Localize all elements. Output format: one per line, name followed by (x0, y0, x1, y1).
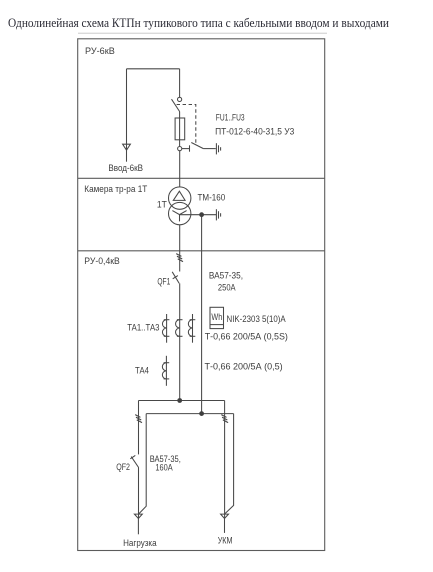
svg-text:ВА57-35,: ВА57-35, (209, 270, 243, 281)
wire: fuse to transformer (179, 151, 181, 188)
junction dot: phase bus (177, 398, 182, 403)
svg-text:NIK-2303 5(10)А: NIK-2303 5(10)А (227, 314, 287, 325)
wire: transformer to LV section (179, 225, 181, 272)
svg-text:ТА1..ТА3: ТА1..ТА3 (127, 323, 159, 334)
svg-text:Ввод-6кВ: Ввод-6кВ (108, 163, 143, 174)
svg-text:Камера тр-ра 1Т: Камера тр-ра 1Т (84, 184, 147, 195)
left neutral drop (139, 414, 146, 514)
neutral conductor drop (201, 215, 203, 414)
lower hinge circle (178, 147, 182, 151)
breaker QF1 cross tick (173, 276, 178, 279)
svg-text:FU1..FU3: FU1..FU3 (216, 112, 245, 123)
disconnector blade (172, 99, 180, 111)
cable mark on main LV line (176, 254, 183, 262)
mechanical link (dashed) (177, 105, 196, 144)
svg-text:Т-0,66 200/5А (0,5): Т-0,66 200/5А (0,5) (205, 362, 283, 373)
title underline rule (78, 32, 327, 34)
UKM feeder arrow (221, 514, 229, 518)
CT TA1..TA3 left stub (166, 314, 168, 343)
CT TA1..TA3 right stub (192, 314, 194, 343)
junction dot: transformer neutral (199, 212, 204, 217)
svg-text:Wh: Wh (211, 311, 222, 322)
svg-text:ТМ-160: ТМ-160 (198, 193, 226, 204)
wire: top horizontal 6kV (127, 68, 180, 70)
schematic frame (78, 39, 325, 551)
neutral bus (lower) (146, 413, 233, 415)
earthing switch fixed contact tick (189, 145, 191, 151)
svg-text:1Т: 1Т (157, 199, 167, 210)
load feeder arrow (134, 514, 142, 518)
svg-text:Однолинейная схема КТПн тупико: Однолинейная схема КТПн тупикового типа … (8, 16, 389, 30)
svg-text:Нагрузка: Нагрузка (123, 538, 157, 549)
CT TA4 stub (165, 356, 167, 386)
section divider 1 (Камера тр-ра) (78, 177, 325, 179)
svg-text:РУ-0,4кВ: РУ-0,4кВ (84, 256, 120, 267)
breaker QF2 blade (131, 457, 138, 468)
transformer neutral wire (180, 214, 217, 216)
svg-text:РУ-6кВ: РУ-6кВ (85, 46, 115, 57)
svg-text:160А: 160А (155, 462, 173, 473)
disconnector QS hinge circle (178, 97, 182, 101)
fuse FU1..FU3 body (175, 118, 185, 140)
wire: main drop to disconnector (179, 69, 181, 98)
wire to ground (203, 148, 215, 150)
delta winding mark (173, 191, 185, 200)
phase bus (top) (139, 400, 225, 402)
left phase drop (138, 401, 140, 455)
section divider 2 (РУ-0,4кВ) (78, 250, 325, 252)
transformer 1T secondary circle (169, 202, 191, 224)
svg-text:QF2: QF2 (116, 462, 130, 472)
CT TA4 winding (162, 363, 169, 379)
wire below QF2 (138, 468, 140, 519)
svg-text:Т-0,66 200/5А (0,5S): Т-0,66 200/5А (0,5S) (205, 332, 288, 343)
right neutral drop (225, 414, 234, 514)
CT TA2 winding (176, 320, 183, 337)
svg-text:QF1: QF1 (157, 277, 170, 287)
svg-text:УКМ: УКМ (218, 535, 233, 546)
wire: input drop (126, 69, 128, 144)
right phase drop (224, 401, 226, 519)
CT TA1 winding (162, 320, 169, 337)
breaker QF1 blade (172, 272, 179, 284)
cable mark right drop (221, 415, 228, 423)
CT TA3 winding (188, 320, 195, 337)
cable mark left drop (135, 415, 142, 423)
Wh meter box (210, 307, 224, 328)
wire below QF1 (179, 283, 181, 400)
neutral ground symbol (215, 209, 217, 220)
wire into fuse (179, 112, 181, 147)
ground symbol (HV earthing switch) (215, 143, 217, 154)
breaker QF2 cross tick (130, 455, 135, 458)
junction dot: neutral bus (199, 411, 204, 416)
svg-text:ПТ-012-6-40-31,5 У3: ПТ-012-6-40-31,5 У3 (215, 126, 294, 137)
svg-text:ТА4: ТА4 (135, 365, 149, 376)
earthing switch: stub from hinge (182, 148, 190, 150)
transformer 1T primary circle (169, 187, 191, 209)
svg-text:250А: 250А (218, 282, 236, 293)
wye winding mark (172, 211, 186, 222)
earthing switch blade (191, 143, 203, 149)
input arrow (Ввод-6кВ) (123, 144, 131, 150)
